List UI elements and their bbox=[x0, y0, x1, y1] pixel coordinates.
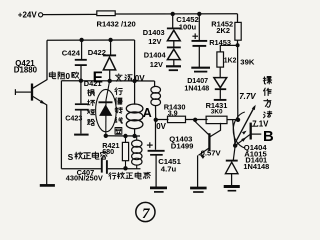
wire D1407 cathode stub bbox=[219, 89, 221, 99]
diode D1401 clamp bbox=[226, 160, 238, 162]
inductor linearity coil bbox=[136, 136, 138, 140]
node junction R421 bottom bbox=[123, 166, 127, 170]
node junction D421 bottom bbox=[104, 134, 108, 138]
svg-text:7.1V: 7.1V bbox=[252, 120, 269, 129]
svg-text:C424: C424 bbox=[62, 48, 81, 57]
wire top rail to D1403 bbox=[172, 14, 174, 28]
svg-text:D1499: D1499 bbox=[171, 142, 194, 151]
transistor Q1404 collector stub bbox=[251, 125, 258, 127]
wire AC-0V horizontal bbox=[61, 80, 154, 82]
svg-text:430N/250V: 430N/250V bbox=[66, 173, 103, 182]
wire bottom left horizontal bbox=[61, 168, 101, 170]
svg-text:12V: 12V bbox=[150, 60, 163, 69]
inductor deflection winding lower bbox=[126, 104, 143, 113]
wire R1432 to top-right corner bbox=[115, 13, 237, 15]
transistor Q1404 bar bbox=[250, 123, 252, 140]
svg-text:4.7u: 4.7u bbox=[161, 164, 177, 173]
node junction base Q1404 bbox=[236, 118, 240, 122]
resistor R1452 2K2 bbox=[235, 22, 241, 40]
node junction D422/D421 bbox=[108, 79, 112, 83]
wire A-node to R1430 bbox=[156, 119, 169, 121]
svg-text:D1403: D1403 bbox=[143, 28, 165, 37]
wire R1431 to node bbox=[227, 119, 237, 121]
wire node to D1401 bbox=[233, 146, 235, 161]
capacitor C1451 4.7u bbox=[147, 144, 153, 146]
wire D1404 to ground bbox=[173, 60, 175, 66]
resistor R1431 1K0 bbox=[206, 116, 227, 123]
wire left branch down bbox=[60, 81, 62, 169]
wire C1451 to ground bbox=[155, 155, 157, 187]
node junction A/0V bbox=[154, 118, 158, 122]
svg-text:+24V: +24V bbox=[18, 11, 38, 20]
inductor deflection winding upper bbox=[151, 86, 161, 93]
wire bottom right horizontal bbox=[108, 168, 141, 170]
capacitor C407 S-correction bbox=[101, 158, 103, 173]
wire Q1403 emitter down bbox=[197, 155, 199, 187]
wire node stub down bbox=[233, 120, 236, 146]
node rail2 at D422 bbox=[108, 38, 112, 42]
node junction C424/C423 bbox=[79, 79, 83, 83]
zener D1403 bbox=[167, 27, 181, 29]
ground under C1451 bbox=[150, 187, 167, 190]
transistor Q421 emitter bbox=[33, 96, 47, 105]
adjustment arrow bbox=[234, 107, 255, 146]
node junction emitter/D1401 bbox=[233, 143, 237, 147]
wire Q1404 to B bbox=[251, 133, 262, 135]
node junction top rail at C1452 bbox=[197, 12, 201, 16]
wire rail2 to C424 bbox=[81, 40, 83, 59]
resistor R1430 3.9 bbox=[168, 116, 186, 122]
svg-text:R1432 /120: R1432 /120 bbox=[97, 19, 136, 28]
zener D1404 bbox=[167, 46, 181, 48]
svg-text:3.9: 3.9 bbox=[168, 108, 178, 117]
emphasis oval around D421 bbox=[96, 89, 117, 131]
svg-text:0.57V: 0.57V bbox=[201, 149, 222, 158]
svg-text:1N4148: 1N4148 bbox=[243, 162, 269, 171]
label operation-method annotation bbox=[263, 77, 271, 84]
terminal bar C423 bottom bbox=[74, 134, 89, 136]
transistor Q1403 bar bbox=[208, 133, 210, 151]
wire +24V to R1432 bbox=[43, 13, 97, 15]
wire corner down to R1452 bbox=[237, 14, 239, 23]
transistor Q1403 emitter bbox=[199, 147, 211, 155]
svg-text:7.7V: 7.7V bbox=[239, 92, 256, 101]
diode D1407 bbox=[214, 78, 227, 88]
svg-text:100u: 100u bbox=[179, 22, 197, 31]
svg-text:2K2: 2K2 bbox=[216, 26, 230, 35]
svg-text:D1404: D1404 bbox=[144, 50, 167, 59]
svg-text:S: S bbox=[68, 152, 74, 162]
wire mid horizontal bbox=[104, 135, 140, 137]
svg-text:7: 7 bbox=[142, 206, 150, 222]
node junction top rail at D1403 bbox=[171, 12, 175, 16]
wire C424 to AC0V wire bbox=[80, 65, 82, 81]
svg-text:D1880: D1880 bbox=[14, 65, 38, 74]
ground under Q1403 bbox=[190, 187, 207, 190]
wire D1403 to D1404 bbox=[173, 41, 175, 48]
node junction R421 top bbox=[123, 134, 127, 138]
node junction Q1403 base bbox=[193, 118, 197, 122]
ground stub below Q421 bbox=[40, 184, 55, 187]
wire R1453 to D1407 bbox=[219, 67, 221, 78]
wire collector rail bbox=[47, 39, 135, 41]
transistor Q1403 base wire bbox=[195, 120, 208, 135]
figure number 7 bbox=[136, 202, 155, 221]
terminal bar under D1407 bbox=[214, 99, 227, 101]
ground under D1401 bbox=[224, 185, 240, 188]
wire Q421 emitter down bbox=[46, 105, 48, 185]
ground under D1404 bbox=[166, 65, 181, 67]
wire D422 anode down bbox=[109, 70, 111, 81]
svg-text:0V: 0V bbox=[156, 122, 166, 131]
svg-text:1N4148: 1N4148 bbox=[184, 84, 209, 92]
label resistance-0-ohm annotation bbox=[49, 72, 55, 79]
node junction R1452/R1453/39K bbox=[236, 43, 240, 47]
svg-text:39K: 39K bbox=[240, 57, 255, 66]
wire top rail to C1452 bbox=[198, 14, 200, 40]
svg-text:3K0: 3K0 bbox=[211, 109, 223, 116]
transistor Q421 base bbox=[14, 89, 16, 95]
svg-text:D421: D421 bbox=[84, 79, 102, 88]
svg-text:R1453: R1453 bbox=[209, 38, 231, 47]
resistor R421 680 bbox=[125, 136, 127, 142]
transistor Q1404 circle arc bbox=[233, 112, 245, 148]
capacitor C423 bbox=[80, 81, 82, 104]
diode D421 damper bbox=[106, 81, 110, 100]
node junction deflection-coil bottom bbox=[132, 134, 136, 138]
wire rail2 corner down bbox=[134, 40, 136, 105]
svg-text:0V: 0V bbox=[135, 74, 146, 83]
transistor Q421 bar bbox=[31, 84, 33, 101]
transistor Q421 collector bbox=[33, 40, 47, 88]
resistor R1453 1K2 bbox=[217, 52, 224, 67]
svg-text:12V: 12V bbox=[148, 37, 161, 46]
wire D1401 to ground bbox=[231, 174, 233, 186]
label damaged-short annotation bbox=[88, 90, 95, 96]
svg-text:A: A bbox=[143, 106, 152, 120]
svg-text:1K2: 1K2 bbox=[224, 57, 237, 64]
label AC 0V bbox=[115, 74, 122, 81]
transistor Q1404 emitter bbox=[236, 134, 250, 145]
wire 39K sense line bbox=[237, 45, 239, 119]
wire node to R1453 bbox=[220, 45, 237, 52]
svg-text:C423: C423 bbox=[65, 113, 82, 122]
svg-text:0: 0 bbox=[66, 72, 71, 81]
wire A node down to C1451 bbox=[155, 120, 157, 150]
ground under C1452 bbox=[191, 67, 210, 69]
wire C1452 to ground bbox=[198, 46, 200, 67]
label deflection coil (vertical) bbox=[115, 88, 122, 95]
wire rail2 to D422 bbox=[110, 40, 112, 55]
transistor Q1403 collector bbox=[210, 123, 220, 137]
node junction deflection-coil top bbox=[132, 79, 136, 83]
wire R1452 to node bbox=[237, 40, 239, 45]
resistor R1432 bbox=[97, 11, 115, 16]
node rail2 at C424 bbox=[79, 38, 83, 42]
label linearity coil bbox=[109, 173, 116, 179]
wire R1430 to R1431 bbox=[186, 119, 208, 121]
